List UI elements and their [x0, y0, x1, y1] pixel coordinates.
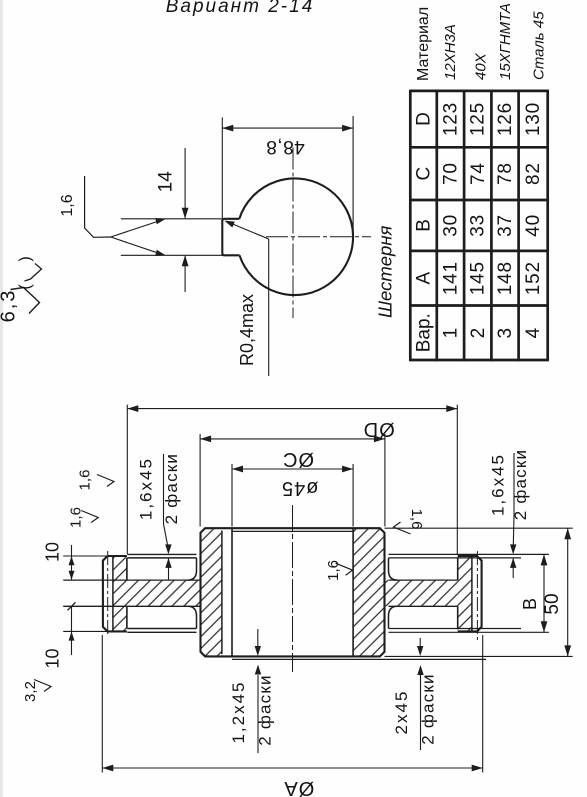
- right groove outer top line with B extension: [389, 553, 549, 555]
- detail view horizontal centerline: [266, 236, 371, 238]
- svg-text:ø45: ø45: [281, 477, 318, 499]
- bore left line: [231, 528, 233, 656]
- svg-text:1,6: 1,6: [408, 509, 425, 530]
- right groove outer bottom line with B extension: [389, 631, 549, 633]
- svg-text:B: B: [520, 598, 540, 610]
- svg-text:15ХГНМТА: 15ХГНМТА: [497, 3, 514, 80]
- roughness 3,2 bottom left: [34, 680, 51, 692]
- dimension OD rim inner diameter: [126, 405, 128, 554]
- svg-text:1,6x45: 1,6x45: [137, 457, 156, 520]
- dimension bore diameter 45: [231, 464, 233, 527]
- left groove upper boundary with hub fillet: [188, 558, 197, 580]
- svg-text:1,6: 1,6: [59, 194, 76, 216]
- detail view bore circle: [239, 178, 353, 295]
- web top line with left extension: [63, 579, 200, 581]
- hub bottom face extension right: [385, 655, 573, 657]
- svg-text:148: 148: [495, 261, 516, 295]
- svg-text:145: 145: [468, 261, 489, 295]
- keyway bottom line in section: [221, 531, 223, 655]
- hub top face extension right: [385, 527, 573, 529]
- svg-text:82: 82: [523, 162, 544, 185]
- dimension 48,8 keyway depth: [221, 117, 223, 218]
- hatch right rim ring: [458, 556, 472, 631]
- dimension 50 hub width: [567, 528, 569, 656]
- roughness 1,6 upper left b: [81, 511, 98, 523]
- svg-text:12ХН3А: 12ХН3А: [442, 24, 459, 80]
- chamfer line 1.6 top right with extension: [389, 557, 522, 559]
- svg-text:125: 125: [468, 102, 489, 136]
- svg-text:Шестерня: Шестерня: [375, 225, 396, 318]
- bore bottom chamfer line: [232, 658, 486, 660]
- svg-text:Материал: Материал: [415, 7, 432, 81]
- svg-text:R0,4max: R0,4max: [237, 294, 257, 366]
- dimension 10 lower: [71, 606, 73, 655]
- svg-text:141: 141: [440, 261, 461, 295]
- svg-text:74: 74: [468, 162, 489, 185]
- left groove lower boundary with hub fillet: [188, 606, 197, 628]
- svg-text:D: D: [414, 112, 435, 126]
- svg-text:6,3: 6,3: [0, 289, 20, 323]
- dimension OA outer diameter: [101, 635, 103, 773]
- svg-text:): ): [17, 256, 34, 261]
- hatch left hub wall: [201, 528, 222, 656]
- svg-text:126: 126: [495, 102, 516, 136]
- left rim root line: [112, 556, 114, 631]
- roughness 1,6 bore surface: [336, 563, 353, 575]
- left groove outer top line: [127, 553, 196, 555]
- svg-text:ØC: ØC: [282, 448, 314, 470]
- right rim outline: [458, 556, 482, 631]
- svg-text:Вариант 2-14: Вариант 2-14: [166, 0, 315, 17]
- right pitch dash-dot line: [476, 551, 478, 642]
- bore right line: [352, 528, 354, 656]
- right groove upper boundary with hub fillet: [389, 558, 398, 580]
- svg-text:78: 78: [495, 162, 516, 185]
- dimension B rim width: [543, 554, 545, 632]
- right rim inner edge upper: [457, 558, 459, 580]
- svg-text:3: 3: [495, 327, 516, 338]
- left pitch dash-dot line: [107, 551, 109, 637]
- hub outline: [201, 528, 385, 656]
- left rim inner edge upper: [126, 558, 128, 580]
- dimension OC hub diameter: [199, 434, 201, 527]
- svg-text:2x45: 2x45: [392, 690, 411, 735]
- svg-text:37: 37: [495, 214, 516, 237]
- svg-text:40: 40: [523, 214, 544, 237]
- svg-text:30: 30: [440, 214, 461, 237]
- svg-text:2 фаски: 2 фаски: [419, 673, 438, 744]
- dimension 10 upper extension line: [63, 555, 107, 557]
- svg-text:2: 2: [468, 327, 489, 338]
- svg-text:1,6: 1,6: [77, 470, 94, 491]
- svg-text:33: 33: [468, 214, 489, 237]
- right groove lower boundary with hub fillet: [389, 606, 398, 628]
- svg-text:B: B: [414, 219, 435, 232]
- chamfer line 1.6 bottom left: [127, 628, 196, 630]
- svg-text:152: 152: [523, 261, 544, 295]
- svg-text:10: 10: [43, 542, 63, 562]
- svg-text:10: 10: [43, 648, 63, 668]
- svg-text:A: A: [414, 271, 435, 284]
- right rim inner edge lower: [457, 606, 459, 628]
- detail view vertical centerline: [292, 148, 294, 319]
- svg-text:C: C: [414, 167, 435, 181]
- svg-text:1,6: 1,6: [325, 560, 342, 581]
- main view vertical axis centerline: [292, 505, 294, 672]
- scan edge shade: [0, 0, 3, 797]
- svg-text:4: 4: [523, 327, 544, 338]
- dimension 10 upper: [71, 545, 73, 580]
- svg-text:14: 14: [156, 171, 177, 193]
- svg-text:70: 70: [441, 162, 462, 185]
- svg-text:1: 1: [441, 327, 462, 338]
- chamfer line 1.6 bottom right with extension: [389, 628, 522, 630]
- svg-text:40Х: 40Х: [473, 52, 490, 80]
- svg-text:1,6: 1,6: [68, 507, 85, 528]
- hatch right web: [385, 580, 458, 606]
- svg-text:1,2x45: 1,2x45: [229, 680, 248, 743]
- svg-text:ØD: ØD: [363, 418, 395, 440]
- left groove outer bottom line: [127, 631, 196, 633]
- right rim root line: [471, 556, 473, 631]
- left rim outline: [103, 556, 127, 631]
- variant table grid: [409, 90, 412, 362]
- svg-text:ØA: ØA: [283, 777, 314, 797]
- svg-text:50: 50: [542, 593, 563, 614]
- svg-text:130: 130: [523, 102, 544, 136]
- chamfer line 1.6 top left: [127, 557, 196, 559]
- hatch right hub wall: [353, 528, 384, 656]
- svg-text:123: 123: [440, 102, 461, 136]
- svg-text:Сталь 45: Сталь 45: [531, 11, 548, 80]
- svg-text:48,8: 48,8: [266, 136, 305, 157]
- hatch left web: [127, 580, 201, 606]
- keyway side extension lines: [121, 218, 239, 220]
- roughness 1,6 hub top right: [394, 522, 411, 534]
- bore top chamfer line: [232, 530, 353, 532]
- keyway notch in detail view: [222, 219, 239, 256]
- svg-text:(: (: [17, 284, 34, 290]
- svg-text:1,6x45: 1,6x45: [489, 453, 508, 516]
- left rim inner edge lower: [126, 606, 128, 628]
- hatch left rim ring: [113, 556, 127, 631]
- svg-text:3,2: 3,2: [22, 681, 39, 702]
- dimension 14 keyway width: [184, 148, 186, 218]
- web bottom line with left extension: [63, 605, 200, 607]
- svg-text:Вар.: Вар.: [414, 313, 435, 352]
- svg-text:2 фаски: 2 фаски: [162, 453, 181, 524]
- dimension 10 lower extension line: [63, 630, 107, 632]
- roughness 1,6 upper left a: [97, 475, 114, 487]
- web bottom line right: [389, 605, 458, 607]
- web top line right: [389, 579, 458, 581]
